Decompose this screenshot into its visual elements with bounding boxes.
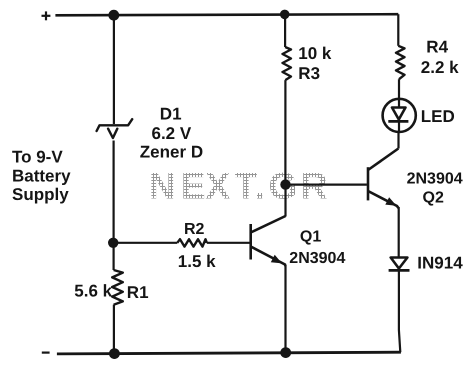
diode IN914 [389, 258, 410, 271]
wire left rail upper (to zener) [113, 15, 115, 124]
svg-text:LED: LED [421, 107, 455, 126]
svg-text:Battery: Battery [12, 167, 71, 186]
svg-text:1.5 k: 1.5 k [178, 252, 216, 271]
node junction R2 branch [108, 238, 118, 248]
svg-text:N: N [149, 165, 176, 206]
svg-text:D1: D1 [160, 104, 182, 123]
resistor R4 [396, 46, 405, 79]
svg-text:5.6 k: 5.6 k [74, 282, 112, 301]
svg-text:2N3904: 2N3904 [407, 170, 463, 187]
svg-text:10 k: 10 k [298, 44, 332, 63]
Q2 emitter arrowhead [385, 197, 396, 206]
transistor Q2 [368, 149, 398, 209]
minus terminal [42, 352, 50, 354]
node junction Q2 base / R3 / Q1 collector [280, 179, 290, 189]
LED D2 [383, 99, 416, 132]
svg-text:Zener D: Zener D [140, 142, 203, 161]
resistor R3 [283, 47, 292, 80]
wire top-right corner to R4 [397, 14, 399, 46]
svg-text:R: R [301, 165, 328, 206]
label To 9-V Battery Supply [12, 147, 71, 204]
resistor R2 [177, 239, 207, 246]
svg-text:Q2: Q2 [423, 190, 444, 207]
watermark NEXT.GR [149, 165, 328, 206]
svg-text:R1: R1 [127, 283, 149, 302]
svg-text:2.2 k: 2.2 k [421, 58, 459, 77]
svg-text:Supply: Supply [12, 185, 69, 204]
resistor R1 [112, 270, 123, 305]
wire node to R1 [112, 243, 114, 270]
svg-text:R3: R3 [298, 64, 320, 83]
svg-text:To 9-V: To 9-V [12, 147, 63, 166]
svg-text:R4: R4 [426, 38, 448, 57]
svg-text:.: . [255, 165, 265, 206]
node junction bottom emitter [280, 347, 291, 358]
wire bottom negative rail [57, 352, 401, 354]
wire Q2 collector to LED [397, 131, 399, 149]
wire Q2 base [286, 184, 367, 186]
node junction top-left [108, 10, 119, 21]
wire R3 bottom to node [284, 80, 286, 184]
wire Q1 collector to node F [284, 185, 286, 217]
wire Q2 emitter to IN914 [398, 207, 400, 258]
wire base R2 left [113, 242, 177, 244]
svg-text:Q1: Q1 [300, 229, 321, 246]
svg-text:R2: R2 [184, 221, 205, 238]
wire zener to R2 node [112, 141, 114, 243]
transistor Q1 [251, 216, 286, 266]
svg-text:IN914: IN914 [417, 253, 463, 272]
zener diode D1 [97, 119, 133, 138]
Q1 emitter arrowhead [271, 255, 282, 264]
node junction bottom-left [109, 348, 120, 359]
svg-text:E: E [181, 165, 206, 206]
svg-text:X: X [205, 165, 230, 206]
wire top positive rail [55, 14, 398, 15]
wire IN914 to bottom rail [399, 270, 400, 352]
wire R2 to Q1 base [207, 242, 250, 244]
wire R1 to bottom rail [113, 305, 115, 354]
wire R3 top [284, 14, 286, 47]
plus terminal [42, 11, 51, 20]
svg-text:2N3904: 2N3904 [289, 250, 345, 267]
wire Q1 emitter to bottom rail [284, 265, 286, 353]
svg-text:6.2 V: 6.2 V [152, 124, 192, 143]
wire R4 to LED [398, 79, 400, 100]
node junction top R3 [280, 10, 290, 20]
